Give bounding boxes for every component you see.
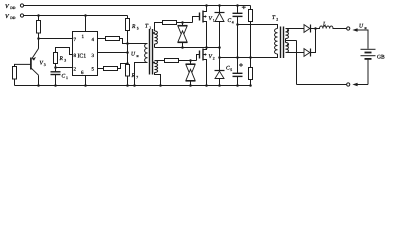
svg-text:н: н — [365, 26, 367, 30]
node junction dot — [236, 84, 239, 87]
svg-text:5: 5 — [230, 68, 232, 72]
label Uc — [359, 24, 367, 31]
pin 1 — [82, 34, 85, 40]
label C1 — [62, 74, 69, 81]
node junction dot — [205, 84, 208, 87]
node junction dot — [205, 46, 208, 49]
node junction dot — [189, 84, 192, 87]
node junction dot pin1 — [84, 14, 87, 17]
resistor R4 — [98, 37, 148, 44]
node junction dot — [54, 66, 57, 69]
transformer T2 core — [281, 27, 284, 59]
wire mid node y47 — [155, 47, 220, 49]
pin 3 — [92, 53, 95, 59]
zener VD1 bidirectional — [178, 23, 188, 48]
label plus C5 — [239, 63, 243, 67]
capacitor C5 — [233, 58, 243, 86]
node junction dot — [205, 4, 208, 7]
label L — [322, 22, 326, 28]
node junction dot — [54, 84, 57, 87]
svg-text:IC1: IC1 — [78, 54, 87, 60]
wire rail B — [24, 15, 128, 17]
wire VD3 to VD4 — [219, 48, 221, 71]
node junction dot — [133, 84, 136, 87]
pin 8 — [74, 53, 77, 59]
resistor R10 — [249, 6, 253, 58]
resistor R2 — [13, 67, 17, 86]
transistor V2 MOSFET — [200, 48, 207, 86]
svg-text:7: 7 — [136, 76, 138, 80]
node junction dot — [249, 56, 252, 59]
svg-text:3: 3 — [44, 63, 46, 67]
svg-text:V: V — [5, 4, 10, 10]
wire gate V2 — [197, 55, 200, 61]
transformer T2 center tap — [286, 39, 297, 85]
capacitor C1 — [51, 68, 61, 86]
label C5 — [226, 66, 232, 73]
svg-text:DD: DD — [10, 6, 16, 10]
label R5 — [131, 24, 139, 31]
arrow current top — [352, 28, 368, 49]
svg-text:н: н — [137, 54, 139, 58]
svg-text:4: 4 — [232, 20, 234, 24]
pin 7 — [74, 37, 77, 43]
diode VD3 — [215, 6, 225, 48]
node junction dot — [37, 14, 40, 17]
label R3 — [59, 56, 67, 63]
label R7 — [131, 73, 139, 80]
label C4 — [228, 18, 234, 25]
node junction dot — [181, 21, 184, 24]
node junction dot — [159, 84, 162, 87]
resistor R5 — [126, 16, 130, 44]
transistor V1 MOSFET — [200, 6, 207, 48]
transistor Q1 V3 — [31, 39, 39, 86]
wire to pin 7 — [39, 38, 73, 40]
wire rail A top — [24, 5, 251, 7]
transformer T1 secondary top winding — [153, 23, 163, 48]
resistor R7 — [126, 65, 130, 86]
zener VD2 bidirectional — [186, 61, 196, 86]
label V3 — [40, 61, 46, 68]
arrow current bottom — [352, 83, 368, 87]
transformer T2 secondary bottom winding — [286, 41, 305, 53]
node junction dot — [126, 62, 129, 65]
node junction dot — [189, 59, 192, 62]
node junction dot — [218, 46, 221, 49]
label T2 — [272, 15, 278, 22]
svg-text:5: 5 — [137, 27, 139, 31]
terminal VDD1 — [20, 4, 23, 7]
node junction dot — [181, 46, 184, 49]
svg-text:GB: GB — [377, 54, 385, 60]
node junction dot — [218, 84, 221, 87]
wire y57 to T2 — [220, 54, 278, 58]
node junction dot — [126, 42, 129, 45]
inductor L — [316, 26, 347, 29]
resistor R1 — [37, 16, 41, 39]
svg-text:DD: DD — [10, 16, 16, 20]
svg-text:U: U — [131, 52, 136, 58]
node junction dot — [126, 51, 129, 54]
wire T1 primary bottom — [135, 63, 148, 86]
svg-text:3: 3 — [64, 59, 66, 63]
op-amp U1 IC1 box — [73, 32, 98, 76]
pin 2 — [74, 67, 77, 73]
label GB — [377, 54, 385, 60]
transformer T2 secondary top winding — [286, 29, 305, 39]
label IC1 — [78, 54, 87, 60]
svg-text:L: L — [322, 22, 326, 28]
node junction dot — [249, 84, 252, 87]
node junction dot — [236, 4, 239, 7]
wire y24 to T2 — [238, 25, 278, 29]
transformer T1 primary winding — [145, 44, 148, 63]
node junction dot — [37, 84, 40, 87]
node junction dot — [218, 4, 221, 7]
terminal output top — [347, 27, 350, 30]
resistor R8 gate top — [163, 21, 193, 25]
transformer T2 primary winding — [275, 29, 278, 55]
node junction dot — [218, 56, 221, 59]
node junction dot — [236, 23, 239, 26]
resistor R6 — [98, 64, 128, 71]
node junction dot — [314, 27, 317, 30]
label plus C4 — [242, 5, 246, 9]
resistor R11 — [249, 58, 253, 86]
node junction dot — [236, 56, 239, 59]
diode VD4 — [215, 71, 225, 86]
terminal output bottom — [347, 83, 350, 86]
svg-text:1: 1 — [66, 76, 68, 80]
label V2 — [209, 54, 215, 61]
wire base — [15, 64, 31, 66]
pin 4 — [92, 37, 95, 43]
label V1 — [209, 16, 215, 23]
transformer T1 secondary bottom winding — [153, 61, 165, 86]
label Un — [131, 52, 139, 59]
svg-text:U: U — [359, 24, 364, 30]
svg-text:R: R — [59, 56, 64, 62]
node VDD1 label — [5, 4, 16, 10]
transformer T1 core — [150, 29, 153, 75]
resistor R9 gate bottom — [165, 59, 197, 63]
resistor R3 — [54, 48, 73, 68]
label T1 — [145, 24, 151, 31]
diode VD6 — [304, 29, 316, 57]
diode VD5 — [304, 25, 320, 33]
pin 5 — [92, 67, 95, 73]
svg-text:2: 2 — [213, 57, 215, 61]
wire pin 1 — [85, 16, 87, 32]
wire pin 3 — [98, 52, 128, 54]
node junction dot — [84, 84, 87, 87]
pin 6 — [81, 70, 84, 76]
wire bottom rail left — [15, 85, 251, 87]
svg-text:2: 2 — [276, 18, 278, 22]
node junction dot — [126, 84, 129, 87]
wire x127 vertical — [127, 44, 129, 65]
capacitor C4 — [233, 6, 243, 25]
svg-text:V: V — [5, 14, 10, 20]
svg-text:R: R — [131, 24, 136, 30]
wire pin 6 — [85, 76, 87, 86]
node junction dot — [37, 37, 40, 40]
wire gate V1 — [193, 17, 200, 23]
wire bottom right rail — [297, 84, 347, 86]
battery GB — [361, 49, 376, 84]
wire x237 mid — [237, 25, 239, 58]
svg-text:C: C — [62, 74, 66, 80]
terminal VDD2 — [20, 14, 23, 17]
wire to pin 2 — [56, 67, 73, 69]
node VDD2 label — [5, 14, 16, 20]
